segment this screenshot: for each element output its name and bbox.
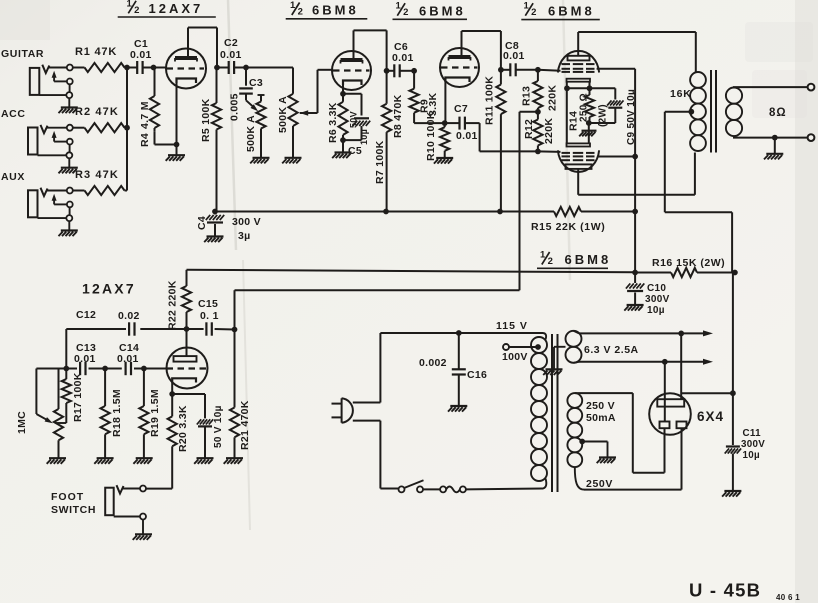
node C15 output bbox=[232, 327, 238, 333]
resistor R10 100K bbox=[425, 111, 449, 161]
resistor R11 100K bbox=[484, 31, 506, 212]
svg-text:500K A: 500K A bbox=[277, 96, 289, 133]
svg-text:R7 100K: R7 100K bbox=[374, 140, 386, 184]
capacitor C6 0.01 bbox=[384, 41, 414, 77]
HV center tap to ground bbox=[579, 439, 616, 464]
potentiometer 500K A tone bbox=[245, 95, 266, 157]
cathode bars and frame of output tubes bbox=[564, 79, 592, 147]
svg-text:R15 22K (1W): R15 22K (1W) bbox=[531, 221, 605, 233]
ground heater winding bbox=[543, 347, 565, 375]
output transformer primary 16K bbox=[670, 72, 706, 151]
tube V3 6BM8 triode bbox=[440, 48, 479, 87]
svg-text:8Ω: 8Ω bbox=[769, 107, 787, 119]
output terminal lower bbox=[808, 134, 815, 141]
label 1/2 6BM8 stage title 2 bbox=[286, 0, 368, 19]
foot switch jack bbox=[105, 485, 146, 534]
tube V6 6X4 rectifier bbox=[649, 393, 691, 435]
svg-text:40 6 1: 40 6 1 bbox=[776, 593, 800, 602]
svg-text:250 V: 250 V bbox=[586, 400, 615, 412]
wire lower plate to output transformer bbox=[578, 153, 695, 195]
svg-text:0. 1: 0. 1 bbox=[200, 310, 219, 322]
output terminal upper bbox=[808, 84, 815, 91]
resistor R15 22K (1W) bbox=[531, 207, 638, 233]
label 6X4 bbox=[697, 409, 724, 424]
wire HV bottom to rectifier plate 2 bbox=[575, 428, 682, 489]
resistor R1 47K bbox=[73, 46, 127, 72]
svg-text:2: 2 bbox=[298, 7, 304, 18]
capacitor C3 0.005 bbox=[229, 68, 264, 122]
wire V7 cathode bbox=[169, 383, 205, 397]
resistor R12 220K bbox=[523, 112, 555, 152]
label 250V lower bbox=[586, 478, 613, 490]
node R12 R13 junction bbox=[520, 109, 541, 115]
wire C3 to tone pot wiper with arrow bbox=[246, 100, 258, 111]
resistor R14 250 ohm (2W) bbox=[568, 88, 609, 143]
power transformer primary winding bbox=[531, 333, 547, 489]
svg-text:2: 2 bbox=[403, 7, 409, 18]
svg-text:ACC: ACC bbox=[1, 108, 26, 120]
svg-text:4.7 M: 4.7 M bbox=[139, 101, 151, 129]
svg-text:R8 470K: R8 470K bbox=[392, 94, 404, 138]
label 1/2 6BM8 stage title 5 bbox=[537, 250, 611, 269]
ground tremolo bypass cap bbox=[194, 458, 213, 464]
resistor R19 1.5M bbox=[139, 369, 161, 458]
node output stage upper grid bbox=[535, 67, 561, 73]
capacitor C5 10u 50V bbox=[343, 94, 370, 157]
label 250V 50mA bbox=[586, 400, 616, 424]
wire V1 plate to C2/R5 node bbox=[188, 28, 220, 71]
svg-text:C16: C16 bbox=[467, 369, 487, 381]
screen grid line lower bbox=[598, 154, 638, 160]
svg-text:C3: C3 bbox=[249, 77, 263, 89]
wire upper plate to output transformer bbox=[578, 32, 696, 72]
wire R20 to foot switch jack bbox=[146, 488, 172, 490]
svg-text:R3 47K: R3 47K bbox=[75, 169, 119, 181]
svg-text:6BM8: 6BM8 bbox=[419, 3, 466, 18]
svg-text:0.01: 0.01 bbox=[456, 130, 478, 142]
svg-text:R16 15K (2W): R16 15K (2W) bbox=[652, 257, 725, 269]
svg-text:2: 2 bbox=[548, 256, 554, 267]
B+ rail 250V bbox=[212, 209, 554, 215]
power transformer core bbox=[552, 334, 558, 492]
tube V4 6BM8 pentode upper half bbox=[558, 32, 599, 73]
svg-text:0.01: 0.01 bbox=[130, 49, 152, 61]
label 1/2 12AX7 stage title bbox=[118, 0, 216, 17]
resistor R6 3.3K bbox=[327, 84, 348, 143]
svg-text:0.005: 0.005 bbox=[229, 93, 241, 121]
svg-text:6.3 V 2.5A: 6.3 V 2.5A bbox=[584, 344, 639, 356]
svg-text:U - 45B: U - 45B bbox=[689, 580, 761, 601]
svg-text:R17 100K: R17 100K bbox=[72, 372, 84, 422]
node tone/volume bbox=[243, 65, 293, 71]
ground V1 cathode bbox=[166, 155, 185, 161]
wire C7 to lower output grid bbox=[480, 123, 538, 151]
capacitor C9 10u 50V bbox=[589, 88, 637, 145]
svg-text:C7: C7 bbox=[454, 103, 468, 115]
ground R19 bbox=[133, 458, 152, 464]
resistor R16 15K (2W) bbox=[632, 257, 738, 277]
svg-text:12AX7: 12AX7 bbox=[149, 1, 204, 16]
wire V3 cathode bbox=[442, 81, 448, 127]
svg-text:12AX7: 12AX7 bbox=[82, 281, 136, 297]
svg-text:10µ: 10µ bbox=[647, 305, 665, 316]
svg-text:0.01: 0.01 bbox=[117, 353, 139, 365]
heater winding 6.3V bbox=[566, 331, 582, 363]
svg-text:0.02: 0.02 bbox=[118, 310, 140, 322]
ground tone pot bbox=[250, 158, 269, 164]
svg-text:C12: C12 bbox=[76, 309, 96, 321]
fuse bbox=[440, 486, 543, 492]
svg-text:250V: 250V bbox=[586, 478, 613, 490]
label C14 0.01 bbox=[117, 342, 139, 365]
svg-text:C11: C11 bbox=[743, 428, 762, 439]
tube V2 6BM8 triode bbox=[332, 51, 371, 90]
svg-text:50V: 50V bbox=[349, 111, 359, 128]
capacitor tremolo cathode bypass 10u 50V bbox=[197, 394, 224, 458]
ground C16 bbox=[448, 406, 467, 412]
resistor R13 220K bbox=[521, 70, 559, 112]
resistor R21 470K bbox=[230, 330, 251, 458]
wire V3 plate to R11/C8 line bbox=[462, 31, 501, 57]
ground C11 bbox=[722, 491, 741, 497]
svg-text:0.01: 0.01 bbox=[392, 52, 414, 64]
resistor R4 4.7M bbox=[139, 68, 177, 148]
ground R18 bbox=[94, 458, 113, 464]
node V3 grid bbox=[411, 68, 417, 74]
capacitor C4 3u 300V bbox=[196, 212, 261, 243]
wire plug neutral to switch bbox=[353, 421, 399, 489]
label 6.3V 2.5A bbox=[584, 344, 639, 356]
svg-text:220K: 220K bbox=[547, 85, 559, 111]
ground C4 bbox=[204, 237, 223, 243]
wire C11 node vertical bbox=[732, 273, 734, 446]
svg-text:R20 3.3K: R20 3.3K bbox=[177, 405, 189, 452]
svg-text:50mA: 50mA bbox=[586, 412, 616, 424]
svg-text:2: 2 bbox=[134, 5, 140, 16]
svg-text:R10 100K: R10 100K bbox=[425, 111, 437, 161]
capacitor C2 0.01 bbox=[217, 37, 246, 74]
svg-text:R4: R4 bbox=[139, 133, 151, 147]
tap 100V bbox=[502, 344, 541, 363]
svg-text:0.01: 0.01 bbox=[220, 49, 242, 61]
wire tremolo output to R12/R13 junction bbox=[235, 112, 520, 330]
power switch bbox=[399, 480, 441, 492]
capacitor C7 0.01 bbox=[445, 103, 480, 142]
capacitor C8 0.01 bbox=[498, 40, 538, 76]
ground foot switch bbox=[133, 534, 152, 540]
input jack J1 GUITAR bbox=[1, 48, 78, 113]
tube V1 12AX7 triode bbox=[166, 28, 206, 89]
svg-text:R12: R12 bbox=[523, 119, 535, 139]
wire 6.3V lower with arrow bbox=[574, 359, 714, 365]
ground 1MC pot bbox=[47, 458, 66, 464]
svg-text:R2 47K: R2 47K bbox=[75, 106, 119, 118]
potentiometer 500K A volume bbox=[277, 68, 298, 158]
svg-text:C2: C2 bbox=[224, 37, 238, 49]
node output stage lower grid bbox=[535, 149, 561, 155]
svg-text:R13: R13 bbox=[521, 86, 533, 106]
wire secondary bottom to terminal bbox=[733, 135, 808, 141]
resistor R5 100K bbox=[200, 68, 221, 212]
ground speaker return bbox=[764, 138, 783, 160]
capacitor C11 10u 300V bbox=[725, 390, 766, 490]
svg-text:6BM8: 6BM8 bbox=[548, 3, 595, 18]
resistor R20 3.3K bbox=[168, 394, 189, 489]
wire heater lower to 6X4 bbox=[664, 362, 666, 422]
svg-text:C4: C4 bbox=[196, 216, 208, 230]
svg-text:300V: 300V bbox=[645, 294, 670, 305]
svg-text:220K: 220K bbox=[543, 118, 555, 144]
resistor R17 100K bbox=[56, 369, 84, 424]
svg-text:10µ: 10µ bbox=[359, 129, 369, 145]
svg-text:0.01: 0.01 bbox=[74, 353, 96, 365]
ground C10 bbox=[624, 305, 643, 311]
label 12AX7 tremolo title bbox=[82, 281, 136, 297]
svg-text:1MC: 1MC bbox=[16, 411, 28, 434]
resistor R7 100K / R8 470K plate load bbox=[374, 30, 404, 211]
capacitor C16 0.002 line filter bbox=[419, 330, 487, 405]
wire plug hot to primary bbox=[353, 333, 543, 403]
svg-text:6BM8: 6BM8 bbox=[312, 3, 359, 18]
wire center tap to B+ link bbox=[665, 112, 732, 273]
svg-text:R19 1.5M: R19 1.5M bbox=[149, 389, 161, 437]
label U-45B model number bbox=[689, 580, 800, 603]
svg-text:10µ: 10µ bbox=[743, 450, 760, 461]
svg-text:2: 2 bbox=[531, 7, 537, 18]
input jack J2 ACC bbox=[1, 108, 78, 173]
svg-text:R1 47K: R1 47K bbox=[75, 46, 117, 58]
screen grid line upper bbox=[597, 68, 636, 70]
capacitor C15 0.1 bbox=[187, 298, 235, 336]
output transformer secondary bbox=[726, 88, 742, 137]
ground volume pot bbox=[282, 158, 301, 164]
capacitor C1 0.01 bbox=[127, 38, 154, 74]
svg-text:250 Ω: 250 Ω bbox=[579, 93, 590, 122]
capacitor C12 0.02 feedback bbox=[66, 309, 186, 369]
svg-text:R18 1.5M: R18 1.5M bbox=[111, 389, 123, 437]
svg-text:FOOT: FOOT bbox=[51, 491, 84, 503]
wire HV top to rectifier plate 1 bbox=[575, 393, 665, 473]
wire 6.3V upper with arrow bbox=[574, 330, 714, 336]
ground R6 bbox=[332, 140, 351, 158]
resistor R18 1.5M bbox=[101, 369, 124, 458]
ground R14 cathode bbox=[579, 131, 596, 137]
label 1/2 6BM8 stage title 4 bbox=[521, 1, 600, 20]
node OT center tap bbox=[665, 109, 694, 115]
wire tremolo B+ feed bbox=[187, 270, 636, 273]
capacitor C10 10u 300V bbox=[626, 273, 670, 317]
svg-text:500K A: 500K A bbox=[245, 115, 257, 152]
svg-text:300 V: 300 V bbox=[232, 216, 261, 228]
tube V7 12AX7 tremolo bbox=[167, 329, 208, 389]
svg-text:50 V 10µ: 50 V 10µ bbox=[213, 405, 224, 448]
svg-text:R22 220K: R22 220K bbox=[167, 280, 179, 330]
svg-text:C15: C15 bbox=[198, 298, 218, 310]
svg-text:0.002: 0.002 bbox=[419, 357, 447, 369]
svg-text:GUITAR: GUITAR bbox=[1, 48, 44, 60]
wire heater to cathode 6X4 bbox=[680, 333, 682, 399]
svg-text:300V: 300V bbox=[741, 439, 765, 450]
svg-text:3µ: 3µ bbox=[238, 230, 251, 242]
wire secondary top to terminal bbox=[733, 86, 808, 88]
svg-text:115 V: 115 V bbox=[496, 320, 528, 332]
wire volume wiper to V2 grid bbox=[300, 70, 333, 116]
potentiometer 1MC speed bbox=[16, 369, 63, 458]
label 1/2 6BM8 stage title 3 bbox=[393, 1, 468, 20]
svg-text:R21 470K: R21 470K bbox=[239, 400, 251, 450]
wire 6X4 cathode to C11 node bbox=[681, 392, 733, 394]
wire V2 plate to R7/R8 line bbox=[354, 30, 387, 60]
label 115V bbox=[496, 320, 528, 332]
svg-text:R5 100K: R5 100K bbox=[200, 98, 212, 142]
svg-text:6X4: 6X4 bbox=[697, 409, 724, 424]
input jack J3 AUX bbox=[1, 171, 78, 236]
output transformer core bbox=[711, 70, 716, 153]
label 8 ohm bbox=[769, 107, 787, 119]
high voltage winding 250V-0-250V bbox=[567, 393, 582, 467]
ground R10 bbox=[434, 158, 453, 164]
tube V5 6BM8 pentode lower half bbox=[558, 150, 599, 195]
svg-text:AUX: AUX bbox=[1, 171, 25, 183]
wire input bus bbox=[124, 65, 130, 191]
svg-text:6BM8: 6BM8 bbox=[565, 252, 612, 267]
node grid of V1 bbox=[151, 65, 167, 71]
resistor R3 47K bbox=[73, 169, 127, 195]
phase shift chain bbox=[36, 362, 166, 375]
ground R21 bbox=[224, 458, 243, 464]
resistor R22 220K bbox=[167, 270, 192, 330]
resistor R2 47K bbox=[73, 106, 127, 132]
svg-text:100V: 100V bbox=[502, 351, 528, 363]
label FOOT SWITCH bbox=[51, 491, 96, 516]
resistor R9 3.3K bbox=[410, 71, 445, 123]
svg-text:SWITCH: SWITCH bbox=[51, 504, 96, 516]
svg-text:16K: 16K bbox=[670, 88, 692, 100]
svg-text:R11 100K: R11 100K bbox=[484, 76, 496, 125]
wire V1 cathode to ground bbox=[174, 82, 180, 155]
label C13 0.01 bbox=[74, 342, 96, 365]
svg-text:R6 3.3K: R6 3.3K bbox=[327, 102, 339, 143]
svg-text:C10: C10 bbox=[647, 283, 666, 294]
wire screen bus vertical bbox=[634, 69, 636, 273]
mains plug bbox=[332, 398, 353, 423]
svg-text:0.01: 0.01 bbox=[503, 50, 525, 62]
node tremolo plate bbox=[184, 326, 190, 332]
